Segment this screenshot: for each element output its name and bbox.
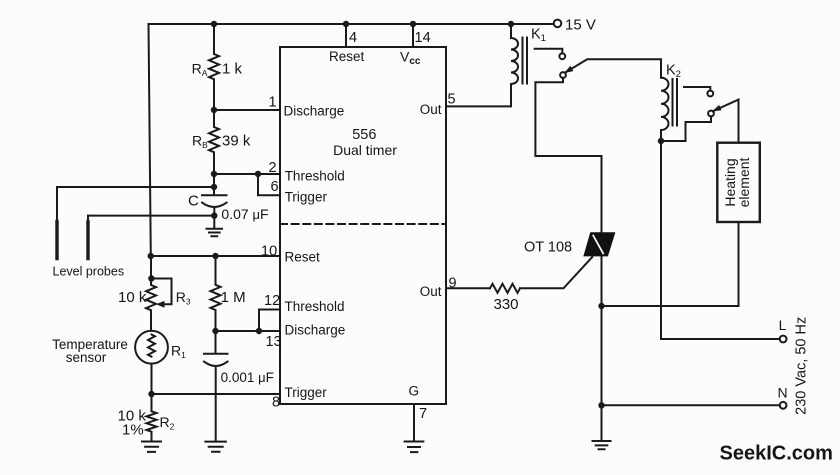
- label Heating element: [722, 157, 752, 207]
- svg-text:0.07 μF: 0.07 μF: [221, 206, 268, 222]
- ground below C: [207, 229, 223, 237]
- node probe2 junction: [211, 212, 217, 218]
- node RB-C pin2: [211, 171, 217, 177]
- relay coil K2: [661, 78, 669, 141]
- svg-text:1 k: 1 k: [222, 61, 243, 78]
- R3 wiper arrowhead: [156, 301, 165, 308]
- svg-text:Discharge: Discharge: [285, 323, 346, 338]
- svg-text:13: 13: [266, 334, 282, 350]
- wire heating element to triac: [602, 223, 739, 306]
- svg-text:0.001 μF: 0.001 μF: [221, 370, 274, 385]
- svg-text:R3: R3: [176, 289, 191, 307]
- wire pin7 G stub: [413, 404, 415, 440]
- svg-text:R1: R1: [171, 343, 186, 361]
- node R3 wiper top: [148, 275, 154, 281]
- node K2-L: [658, 138, 664, 144]
- wire K2 arm to heating element: [713, 100, 739, 143]
- wire level probe 1 to cap node: [57, 186, 214, 188]
- node rail-RA: [211, 21, 217, 27]
- relay coil K1: [511, 24, 518, 84]
- svg-text:12: 12: [264, 293, 280, 309]
- wire L feed: [661, 141, 780, 339]
- node rail-pin14: [410, 21, 416, 27]
- svg-text:RB: RB: [192, 133, 208, 151]
- node probe1 junction: [211, 184, 217, 190]
- wire top +15V rail: [149, 23, 554, 25]
- svg-text:Dual timer: Dual timer: [333, 142, 397, 158]
- wire pin12 Threshold jog: [259, 310, 280, 332]
- svg-text:L: L: [779, 317, 787, 333]
- node rail-pin4: [343, 21, 349, 27]
- svg-text:8: 8: [272, 394, 280, 410]
- svg-text:6: 6: [271, 179, 279, 195]
- resistor RA 1k: [209, 24, 219, 110]
- relay K2 core bars: [673, 79, 678, 126]
- svg-text:Threshold: Threshold: [285, 169, 345, 184]
- svg-text:RA: RA: [192, 61, 208, 79]
- svg-text:14: 14: [415, 30, 431, 46]
- svg-text:4: 4: [349, 30, 357, 46]
- svg-text:C: C: [188, 193, 199, 210]
- wire K2 contact to mains L node: [661, 116, 711, 141]
- svg-text:5: 5: [448, 91, 456, 107]
- svg-text:10 k: 10 k: [118, 289, 147, 306]
- node RA-RB pin1: [211, 107, 217, 113]
- svg-text:R2: R2: [160, 414, 175, 432]
- node reset-R3: [148, 253, 154, 259]
- svg-text:Trigger: Trigger: [285, 189, 328, 204]
- wire probe 2 drop: [87, 216, 89, 222]
- svg-text:9: 9: [449, 275, 457, 291]
- wire pin8 Trigger: [152, 393, 281, 395]
- K2 movable contact: [708, 111, 714, 117]
- svg-text:1 M: 1 M: [221, 289, 246, 306]
- svg-text:39 k: 39 k: [222, 132, 251, 149]
- node pin12 tap: [256, 328, 262, 334]
- svg-text:1: 1: [269, 94, 277, 110]
- wire pin4 stub: [345, 24, 347, 47]
- svg-text:2: 2: [269, 160, 277, 176]
- heating element box: [717, 143, 760, 222]
- relay K1 core bars: [523, 38, 528, 84]
- ground below triac: [593, 441, 611, 449]
- svg-text:Threshold: Threshold: [285, 299, 345, 314]
- K1 arm arrowhead: [564, 66, 573, 73]
- svg-text:Out: Out: [420, 284, 442, 299]
- ground below pin7: [405, 442, 424, 453]
- wire pin6 Trigger jog: [258, 174, 280, 195]
- wire pin10 Reset: [151, 255, 281, 257]
- K1 movable contact: [560, 72, 566, 78]
- svg-text:SeekIC.com: SeekIC.com: [720, 443, 833, 465]
- svg-text:sensor: sensor: [66, 350, 107, 365]
- node triac-heater: [598, 303, 604, 309]
- wire pin14 stub: [412, 24, 414, 47]
- svg-text:10: 10: [261, 244, 277, 260]
- svg-text:G: G: [409, 384, 420, 399]
- wire K1 contact to triac MT2: [535, 78, 601, 232]
- wire K1 arm to K2 coil: [565, 59, 661, 77]
- svg-text:K2: K2: [666, 63, 681, 81]
- wire probe 1 drop: [56, 187, 58, 222]
- svg-text:Trigger: Trigger: [285, 385, 328, 400]
- wire probe 2 to cap node: [88, 215, 214, 217]
- K2 fixed contact: [684, 87, 710, 91]
- svg-text:Level probes: Level probes: [53, 264, 125, 278]
- dashed divider inside 556: [280, 223, 446, 225]
- IC U1 556 box: [280, 47, 446, 404]
- resistor 330: [490, 284, 520, 293]
- svg-text:Discharge: Discharge: [284, 104, 345, 119]
- resistor 1M: [211, 256, 221, 331]
- resistor R2 10k 1%: [147, 394, 157, 441]
- node rail-K1: [508, 21, 514, 27]
- resistor RB 39k: [209, 110, 219, 174]
- wire pin5 Out to K1 coil: [446, 84, 511, 106]
- svg-text:7: 7: [419, 406, 427, 422]
- svg-text:230 Vac, 50 Hz: 230 Vac, 50 Hz: [794, 317, 810, 415]
- node 15V terminal: [554, 20, 562, 28]
- svg-text:Reset: Reset: [285, 249, 321, 264]
- node pin6 tap: [255, 171, 261, 177]
- wire left rail down to Reset node: [149, 24, 151, 256]
- node reset-1M: [212, 253, 218, 259]
- capacitor C 0.07uF: [202, 174, 227, 229]
- level probe bars: [57, 222, 88, 259]
- svg-text:Vcc: Vcc: [400, 49, 421, 68]
- svg-text:N: N: [778, 384, 788, 400]
- svg-text:element: element: [736, 157, 752, 207]
- node N terminal: [780, 402, 787, 409]
- node triac-N: [598, 402, 604, 408]
- node 1M-pin13: [212, 328, 218, 334]
- wire N feed: [602, 404, 780, 406]
- node L terminal: [780, 336, 787, 343]
- svg-text:OT 108: OT 108: [524, 240, 572, 256]
- svg-text:556: 556: [352, 127, 376, 143]
- K2 arm arrowhead: [712, 105, 721, 112]
- capacitor 0.001uF: [204, 331, 228, 440]
- svg-text:15 V: 15 V: [565, 17, 596, 34]
- wire pin13 Discharge: [216, 330, 281, 332]
- triac OT108 body: [583, 232, 615, 256]
- wire pin2 Threshold: [214, 173, 280, 175]
- ground below R2: [142, 442, 161, 452]
- R3 wiper arm: [151, 279, 171, 305]
- resistor R3 10k pot: [146, 256, 156, 331]
- node trigger-R1-R2: [148, 391, 154, 397]
- wire pin9 Out with gate lead: [446, 257, 592, 288]
- wire triac MT1 down: [601, 256, 603, 440]
- ground below 0.001uF: [205, 442, 226, 452]
- svg-text:K1: K1: [531, 27, 546, 45]
- svg-text:330: 330: [494, 296, 519, 313]
- temperature sensor R1: [135, 331, 168, 364]
- wire R1 to trigger node: [151, 364, 153, 394]
- svg-text:Out: Out: [420, 102, 442, 117]
- svg-text:1%: 1%: [122, 421, 144, 438]
- svg-text:Reset: Reset: [329, 49, 365, 64]
- K1 fixed contact: [535, 49, 563, 54]
- wire pin1 Discharge: [214, 109, 280, 111]
